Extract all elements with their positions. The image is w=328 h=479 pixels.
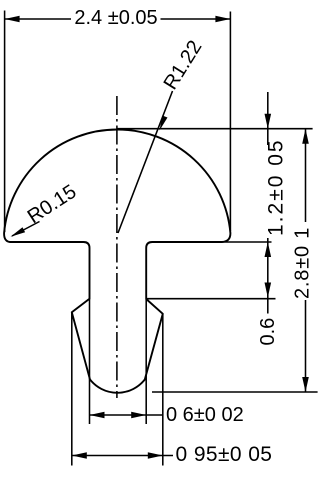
arrow down at tang bottom for 2.8 dim: [302, 377, 309, 392]
extension line left barb width: [71, 313, 73, 466]
arrow down at crown top for 1.2 dim: [265, 114, 272, 129]
vertical centerline (dash-dot): [116, 96, 118, 398]
arrow left of 2.4 dim: [5, 16, 20, 23]
leader line for R1.22: [118, 91, 173, 233]
extension line at crown top: [117, 128, 312, 130]
extension line right at barb top: [146, 298, 275, 300]
svg-text:R0.15: R0.15: [24, 181, 81, 229]
extension line right tang width: [145, 299, 147, 424]
dimension line 1.2/0.6 middle segment: [267, 238, 269, 314]
leader line for R0.15: [12, 222, 40, 237]
dimension line 2.8 lower segment: [305, 300, 307, 392]
arrow up at underside for 1.2 dim: [265, 242, 272, 257]
svg-text:2.8±0 1: 2.8±0 1: [292, 227, 314, 299]
dimension line 1.2 upper tail: [267, 92, 269, 145]
arrow down at barb line for 0.6 dim: [265, 283, 272, 298]
extension line right of crown underside: [222, 241, 272, 243]
arrow left of 0.6±0.02 dim: [90, 412, 105, 419]
dimension line 0.6±0.02: [90, 414, 163, 416]
dimension line 2.4 left segment: [5, 18, 71, 20]
dimension line 2.8 upper segment: [305, 129, 307, 222]
extension line right at tang bottom: [152, 391, 318, 393]
svg-text:1.2±0 05: 1.2±0 05: [265, 138, 288, 236]
extension line right barb width: [162, 314, 164, 466]
arrow left of 0.95±0.05 dim: [72, 452, 87, 459]
svg-text:R1.22: R1.22: [160, 37, 207, 94]
arrow right of 0.95±0.05 dim: [148, 452, 163, 459]
profile outline of fret-wire cross-section: [4, 130, 230, 393]
dimension line 0.95±0.05: [72, 455, 173, 457]
extension line left for 2.4 dim: [4, 11, 6, 233]
arrow of R0.15 leader pointing at corner: [11, 227, 26, 237]
arrow of R1.22 leader pointing at arc: [160, 116, 168, 131]
extension line left tang width: [89, 299, 91, 424]
dimension line 2.4 right segment: [161, 18, 231, 20]
svg-text:0 95±0 05: 0 95±0 05: [176, 443, 273, 466]
arrow right of 0.6±0.02 dim: [131, 412, 146, 419]
arrow up at crown top for 2.8 dim: [302, 129, 309, 144]
svg-text:0 6±0 02: 0 6±0 02: [166, 404, 244, 426]
svg-text:0.6: 0.6: [257, 318, 279, 346]
arrow right of 2.4 dim: [215, 16, 230, 23]
extension line right for 2.4 dim: [229, 12, 231, 232]
svg-text:2.4 ±0.05: 2.4 ±0.05: [74, 7, 157, 29]
